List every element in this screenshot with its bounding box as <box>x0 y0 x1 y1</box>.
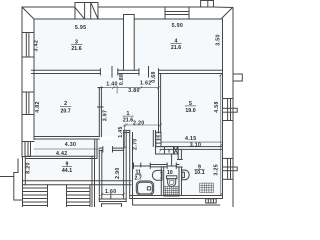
svg-text:3.97: 3.97 <box>102 110 108 122</box>
svg-text:8.20: 8.20 <box>26 162 32 174</box>
svg-text:44.1: 44.1 <box>62 168 72 174</box>
room 2 bottom wall <box>34 136 99 138</box>
right wall <box>232 8 234 208</box>
top wall inner edge <box>34 18 124 20</box>
svg-text:21.6: 21.6 <box>71 46 81 52</box>
svg-text:20.7: 20.7 <box>60 109 70 115</box>
svg-text:2.70: 2.70 <box>133 139 139 151</box>
top-right shaft above wall <box>201 1 214 8</box>
svg-text:3.42: 3.42 <box>34 40 40 52</box>
corridor strip mid line <box>34 148 99 150</box>
svg-text:1.60: 1.60 <box>105 189 117 195</box>
pier between rooms 3 and 4 <box>123 15 125 71</box>
room fills <box>25 19 222 199</box>
room5 bottom wall / kitchen top wall <box>161 146 223 148</box>
svg-text:2.7: 2.7 <box>135 175 142 181</box>
corridor left wall (room 2 right wall) <box>98 88 100 137</box>
bottom wall of bath block and kitchen <box>130 195 223 197</box>
corridor lobby corner wall <box>124 129 130 131</box>
svg-text:5.90: 5.90 <box>172 23 184 29</box>
corridor leg walls <box>94 140 96 157</box>
kitchen stove <box>200 183 214 192</box>
svg-text:3.25: 3.25 <box>214 164 220 176</box>
svg-text:5.95: 5.95 <box>75 25 87 31</box>
closet wall stack right of corridor <box>152 131 154 147</box>
svg-text:1.62: 1.62 <box>140 81 152 87</box>
svg-text:0.88: 0.88 <box>119 74 125 86</box>
bathroom block left wall <box>129 130 131 198</box>
stairs flight left <box>22 185 24 207</box>
stairs flight right <box>66 185 68 207</box>
bathtub <box>136 181 153 195</box>
WC floor hatch <box>164 186 180 196</box>
left wall balcony door <box>22 141 34 143</box>
WC toilet <box>167 176 177 179</box>
right wall window W4 <box>223 157 234 159</box>
svg-text:4.30: 4.30 <box>65 142 77 148</box>
chimney block top-left <box>74 3 76 20</box>
door axis ticks <box>111 67 113 78</box>
dimension chain lines <box>99 74 223 196</box>
top wall window room4 <box>165 11 189 13</box>
bathroom block top wall <box>133 164 134 166</box>
top wall outer edge <box>22 3 165 20</box>
room 6 top wall <box>25 155 94 157</box>
left wall lower double <box>22 157 24 186</box>
svg-text:10.1: 10.1 <box>194 170 204 176</box>
svg-text:1.45: 1.45 <box>118 126 124 138</box>
svg-text:4.82: 4.82 <box>35 101 41 113</box>
svg-text:2.90: 2.90 <box>115 167 121 179</box>
svg-text:1.40: 1.40 <box>106 81 118 87</box>
door jamb ticks corridor top <box>99 69 101 75</box>
porch outside left <box>14 159 23 200</box>
entrance shaft <box>98 150 100 201</box>
left wall window W2 <box>22 91 34 93</box>
bathroom sink <box>152 170 162 180</box>
apartment bottom wall (room 6) <box>23 180 132 182</box>
svg-text:2.20: 2.20 <box>133 120 145 126</box>
WC right / kitchen left wall <box>177 149 179 159</box>
room 6 right wall / stair wall <box>91 157 93 207</box>
bath/WC divider wall <box>160 167 162 195</box>
svg-text:4.15: 4.15 <box>185 136 197 142</box>
left wall inner <box>33 19 35 140</box>
closets 7 and 8 row <box>156 147 165 154</box>
svg-text:7: 7 <box>159 149 162 154</box>
right side vertical dim chain <box>220 75 222 195</box>
stoop below entrance shaft <box>102 203 122 205</box>
right wall protrusion <box>233 74 242 81</box>
left wall outer <box>21 7 23 157</box>
svg-text:4.42: 4.42 <box>56 151 68 157</box>
svg-text:21.6: 21.6 <box>171 45 181 51</box>
svg-text:4.58: 4.58 <box>214 101 220 113</box>
svg-text:21.6: 21.6 <box>123 118 133 124</box>
corridor right wall <box>158 74 160 134</box>
neighbour walls bottom right <box>133 204 220 206</box>
top-left miter <box>22 7 34 19</box>
svg-text:3.50: 3.50 <box>216 34 222 46</box>
kitchen sink <box>182 170 189 180</box>
left wall window W1 <box>22 32 34 34</box>
svg-text:3.10: 3.10 <box>190 142 202 148</box>
svg-text:0.68: 0.68 <box>151 71 157 83</box>
svg-text:8: 8 <box>168 149 171 154</box>
horizontal wall rooms3,4 / corridor band <box>32 69 101 71</box>
top-right miter <box>221 8 233 20</box>
svg-text:19.0: 19.0 <box>185 108 195 114</box>
svg-text:3.80: 3.80 <box>128 88 140 94</box>
svg-text:10: 10 <box>167 170 173 176</box>
right wall window W3 <box>223 98 234 100</box>
